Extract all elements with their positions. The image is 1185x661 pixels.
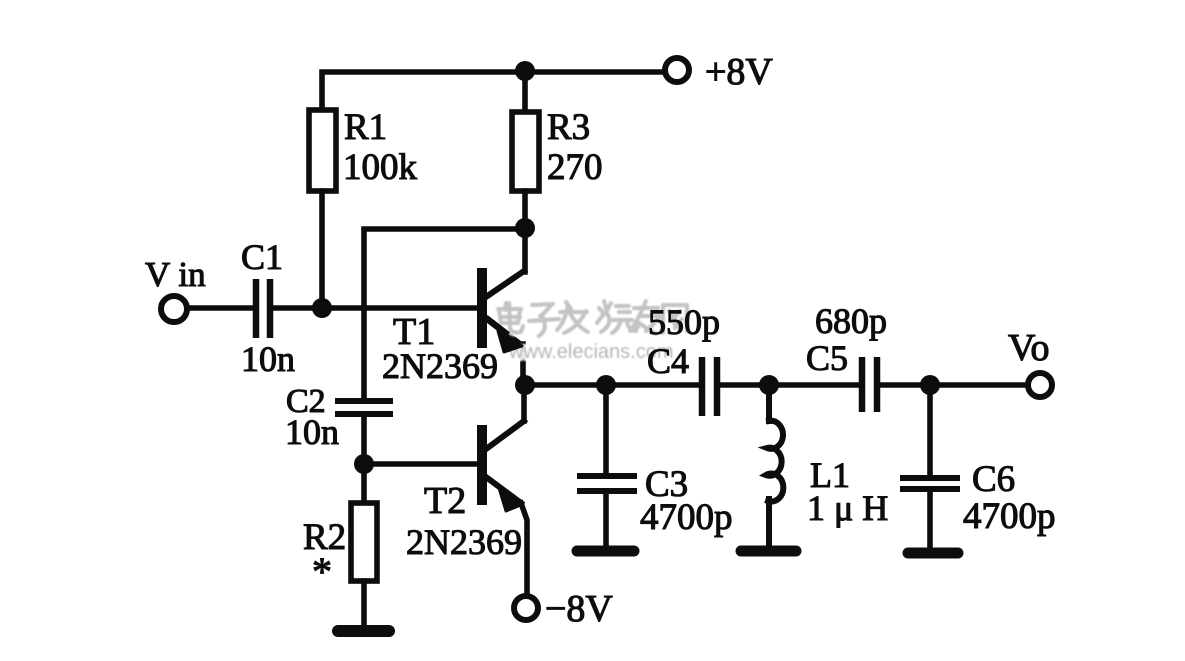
node R1-input junction [312, 298, 332, 318]
label C2 10n [285, 383, 339, 452]
capacitor C4 [702, 357, 717, 416]
node C6 junction [920, 375, 940, 395]
label V in [145, 255, 206, 294]
node L1 junction [759, 375, 779, 395]
capacitor C1 [256, 279, 270, 338]
inductor L1 [766, 385, 783, 548]
wire C2 to T2 base node [361, 414, 367, 464]
capacitor C5 [862, 357, 877, 412]
wire C4 to C5 [720, 382, 859, 388]
node collector-feedback junction [515, 218, 535, 238]
svg-text:10n: 10n [285, 412, 339, 452]
svg-text:4700p: 4700p [963, 496, 1056, 537]
ground R2 [338, 625, 389, 637]
terminal +8V [665, 58, 689, 82]
wire C1 to T1 base [273, 305, 477, 311]
terminal Vo [1028, 373, 1052, 397]
label C4 550p [647, 302, 720, 381]
svg-text:680p: 680p [815, 301, 887, 341]
svg-text:2N2369: 2N2369 [382, 346, 498, 386]
label R3 270 [547, 107, 603, 188]
ground C3 [577, 546, 634, 557]
svg-text:V in: V in [145, 255, 206, 294]
svg-text:550p: 550p [648, 302, 720, 342]
svg-text:4700p: 4700p [640, 497, 733, 538]
wire T2 emitter to -8V [521, 503, 527, 596]
capacitor C6 [900, 385, 960, 549]
svg-text:R1: R1 [344, 107, 387, 148]
svg-text:100k: 100k [343, 147, 418, 188]
wire C5 to Vo [880, 382, 1028, 388]
svg-text:10n: 10n [241, 339, 295, 379]
terminal Vin [161, 296, 187, 322]
capacitor C3 [577, 385, 637, 547]
wire output bus T1 to C4 [525, 382, 699, 388]
ground C6 [908, 548, 958, 559]
svg-text:*: * [312, 549, 332, 594]
wire T2 collector to output node [521, 385, 527, 421]
svg-text:T2: T2 [424, 480, 466, 522]
label -8V [545, 588, 613, 630]
label T2 2N2369 [406, 480, 522, 562]
svg-text:C6: C6 [972, 459, 1015, 500]
terminal -8V [514, 596, 538, 620]
svg-text:C4: C4 [647, 341, 689, 381]
svg-text:+8V: +8V [705, 51, 773, 93]
resistor R3 [512, 72, 539, 191]
label C5 680p [806, 301, 887, 378]
ground L1 [741, 546, 796, 557]
svg-text:C1: C1 [241, 237, 283, 277]
wire base node to T2 [364, 461, 477, 467]
svg-text:2N2369: 2N2369 [406, 522, 522, 562]
label C1 10n [241, 237, 295, 379]
label T1 2N2369 [382, 311, 498, 386]
svg-text:−8V: −8V [545, 588, 613, 630]
label L1 1uH [807, 455, 888, 528]
wire R3 bottom to T1 collector [522, 191, 528, 272]
svg-text:270: 270 [547, 147, 603, 188]
wire R1 bottom to input node [319, 191, 325, 308]
transistor T1 emitter arrowhead [486, 318, 522, 352]
wire feedback from collector node to C2 [364, 229, 525, 399]
capacitor C2 [335, 401, 393, 414]
svg-text:Vo: Vo [1008, 327, 1050, 369]
node T2 base junction [354, 454, 374, 474]
node C3 junction [596, 375, 616, 395]
label C3 4700p [640, 464, 733, 538]
label R1 100k [343, 107, 418, 188]
wire Vin to C1 [188, 305, 253, 311]
node rail-R3 junction [515, 61, 535, 81]
transistor T1 [477, 268, 524, 348]
node output junction [515, 375, 535, 395]
svg-text:C5: C5 [806, 338, 848, 378]
transistor T2 [477, 421, 524, 511]
resistor R2 [351, 464, 377, 626]
label Vo [1008, 327, 1050, 369]
label R2 * [303, 517, 346, 594]
label C6 4700p [963, 459, 1056, 537]
label +8V [705, 51, 773, 93]
svg-text:R3: R3 [547, 107, 590, 148]
wire T1 emitter down to output node [520, 344, 526, 385]
svg-text:1 μ H: 1 μ H [807, 488, 888, 528]
resistor R1 [309, 110, 336, 191]
watermark [498, 301, 687, 363]
wire top +8V rail [322, 72, 662, 110]
